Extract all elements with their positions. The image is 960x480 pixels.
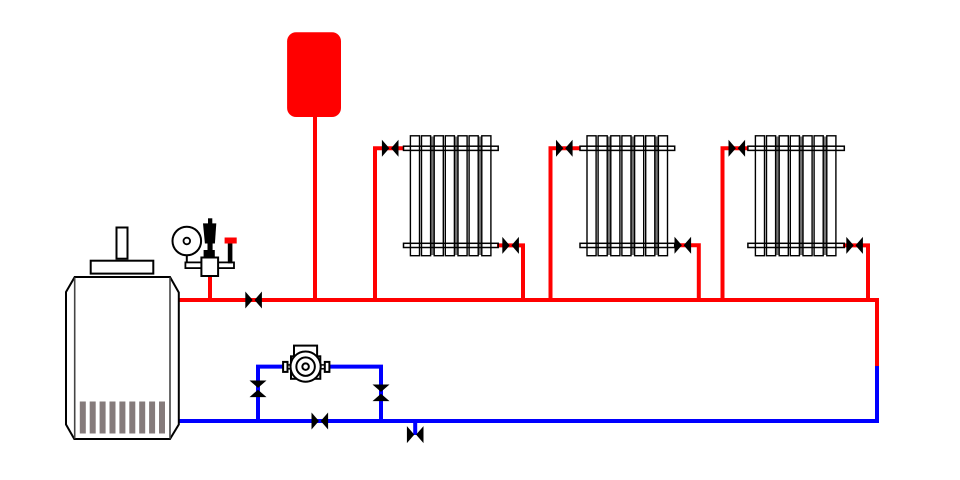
- valve V4 (radiator 2 inlet): [556, 140, 573, 157]
- pipe: expansion tank drop pipe: [313, 116, 317, 300]
- pipe: radiator 2 supply riser and inlet stub: [551, 148, 581, 302]
- safety valve cap: [208, 218, 212, 223]
- safety group manifold block: [201, 258, 218, 277]
- pipe: drain stub: [413, 421, 417, 435]
- boiler front-face edge left: [74, 278, 76, 439]
- pressure gauge body: [173, 227, 202, 256]
- valve V3 (radiator 1 outlet): [502, 237, 519, 254]
- return pipe: right riser cold leg and return main: [178, 366, 877, 421]
- radiator 2: [580, 136, 675, 256]
- radiator 3: [748, 136, 844, 256]
- pipe: radiator 3 outlet stub and return drop: [843, 245, 868, 302]
- safety valve body: [203, 223, 216, 243]
- pipe: radiator 1 supply riser and inlet stub: [375, 148, 404, 302]
- valve V8 (bypass left, vertical): [250, 381, 267, 398]
- air vent body: [228, 243, 233, 263]
- safety valve stem: [208, 244, 213, 251]
- pump P1: [283, 346, 329, 382]
- safety valve flange: [204, 250, 215, 258]
- chimney: [117, 228, 128, 259]
- valve V9 (bypass right, vertical): [373, 385, 390, 402]
- valve V11 (drain valve): [407, 426, 424, 443]
- safety group left arm: [185, 262, 202, 268]
- pipe: safety group drop pipe: [208, 275, 212, 300]
- valve V6 (radiator 3 inlet): [729, 140, 746, 157]
- pipe: radiator 1 outlet stub and return drop: [497, 245, 523, 302]
- valve V1 (boiler supply shut-off): [245, 292, 262, 309]
- pressure gauge stem: [186, 254, 188, 262]
- radiator 1: [404, 136, 499, 256]
- boiler grate bars: [80, 402, 165, 434]
- safety group right arm: [218, 262, 234, 268]
- boiler flue collar: [91, 261, 154, 274]
- expansion tank T1: [287, 32, 341, 117]
- pipe: radiator 2 outlet stub and return drop: [674, 245, 699, 302]
- pipe: radiator 3 supply riser and inlet stub: [723, 148, 749, 302]
- valve V2 (radiator 1 inlet): [382, 140, 399, 157]
- valve V5 (radiator 2 outlet): [675, 237, 692, 254]
- supply pipe: boiler to right riser (hot water main): [178, 300, 877, 366]
- air vent red cap: [225, 238, 237, 244]
- valve V7 (radiator 3 outlet): [846, 237, 863, 254]
- valve V10 (return main shut-off): [312, 413, 329, 430]
- pressure gauge hub: [184, 238, 191, 245]
- boiler body: [66, 277, 179, 439]
- boiler front-face edge right: [169, 278, 171, 439]
- pipe: pump bypass loop: [258, 367, 381, 423]
